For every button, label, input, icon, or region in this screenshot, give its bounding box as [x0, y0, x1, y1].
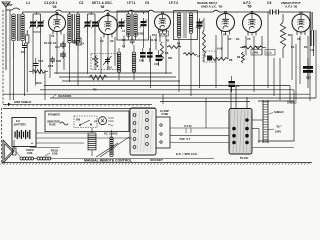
- svg-text:'36: '36: [100, 5, 105, 9]
- svg-text:A.F.2 '36: A.F.2 '36: [285, 5, 298, 9]
- svg-text:PLUG: PLUG: [240, 156, 249, 160]
- svg-text:COIL: COIL: [27, 152, 33, 155]
- label I.F.T.2: [169, 1, 178, 5]
- svg-text:K1: K1: [304, 45, 308, 49]
- battery 6V storage: [12, 118, 36, 147]
- capacitor C1B: [56, 52, 66, 64]
- resistor R4: [183, 53, 201, 58]
- svg-text:C18: C18: [48, 64, 54, 68]
- svg-text:R3A: R3A: [36, 81, 42, 85]
- switch SW: [74, 116, 97, 128]
- svg-text:C2: C2: [79, 1, 83, 5]
- label MANUAL REMOTE CONTROL: [84, 159, 132, 163]
- inductor L2 RF transformer: [68, 12, 80, 50]
- resistor R4b: [166, 40, 181, 61]
- resistor R10: [280, 14, 285, 58]
- label SOCKET: [150, 158, 163, 162]
- label SHIELD top: [287, 101, 297, 105]
- tube V2 DET.1-OSC: [99, 13, 118, 37]
- label R10: [288, 33, 293, 37]
- svg-text:X2: X2: [100, 39, 104, 43]
- svg-text:SOCKET: SOCKET: [150, 158, 163, 162]
- svg-text:C9: C9: [267, 1, 271, 5]
- network tone box: [203, 51, 216, 62]
- capacitor C15 resistor R3A: [29, 58, 48, 86]
- label L1: [26, 1, 30, 5]
- capacitor C18: [48, 57, 55, 69]
- label DET.2 AVC: [197, 1, 223, 9]
- svg-text:(8.1): (8.1): [267, 52, 272, 55]
- svg-text:R07: R07: [168, 57, 173, 60]
- shield box I.F.T.2: [174, 11, 198, 40]
- svg-text:MANUAL REMOTE CONTROL: MANUAL REMOTE CONTROL: [84, 159, 132, 163]
- svg-text:C1: C1: [44, 1, 48, 5]
- svg-text:C10: C10: [306, 76, 311, 80]
- svg-text:"B+": "B+": [276, 125, 283, 129]
- inductor RF choke: [104, 130, 118, 157]
- wire battery to power leads: [14, 133, 214, 159]
- wire antenna top lead: [6, 8, 20, 10]
- svg-text:K6: K6: [165, 51, 169, 55]
- svg-text:R8: R8: [229, 58, 233, 62]
- svg-text:180V: 180V: [275, 130, 281, 134]
- wire component drop lines: [10, 10, 308, 100]
- antenna ANT: [2, 2, 13, 70]
- label R8a: [217, 48, 223, 51]
- capacitor C3 osc padder: [118, 12, 131, 36]
- svg-text:FUSE: FUSE: [49, 124, 56, 127]
- svg-text:½OF ½-7: ½OF ½-7: [179, 137, 191, 141]
- svg-text:C: C: [205, 55, 207, 58]
- label V5 pins: [242, 37, 260, 49]
- wire V2 top: [107, 12, 109, 16]
- capacitor C11: [310, 12, 315, 56]
- svg-text:V4: V4: [223, 33, 227, 37]
- transformer T1: [88, 128, 96, 156]
- label C9: [267, 1, 271, 5]
- field coil: [37, 150, 58, 161]
- svg-text:K1: K1: [236, 37, 240, 41]
- capacitor C9 coupling: [268, 10, 281, 15]
- inductor IFT1 windings: [134, 12, 148, 36]
- svg-text:K1 FE C#: K1 FE C#: [44, 41, 57, 45]
- wire V4 top: [225, 11, 227, 13]
- inductor L5: [117, 38, 126, 80]
- wire plug to cable: [252, 120, 294, 148]
- label C16 box: [160, 31, 169, 36]
- wire V1 top: [56, 12, 58, 15]
- svg-text:FUSE: FUSE: [162, 113, 169, 116]
- svg-text:X 2 IG: X 2 IG: [184, 124, 192, 128]
- wire control diagonal: [96, 137, 129, 157]
- label V3 pins: [150, 33, 157, 42]
- svg-text:(C4B): (C4B): [137, 33, 144, 36]
- inductor IFT2 windings: [177, 13, 193, 38]
- label A.F.1 '56: [243, 1, 252, 9]
- label CHASSIS: [52, 94, 71, 98]
- svg-text:CHASSIS: CHASSIS: [58, 94, 71, 98]
- tube V1 R.F. '39: [49, 12, 66, 34]
- resistor R8: [210, 58, 233, 63]
- fuse vibrator: [47, 121, 68, 127]
- label E.P.: [176, 152, 198, 156]
- label C2: [79, 1, 83, 5]
- svg-text:L1: L1: [26, 1, 30, 5]
- svg-text:GNR SHIELD: GNR SHIELD: [14, 100, 31, 104]
- svg-text:'56: '56: [247, 5, 252, 9]
- svg-text:R10: R10: [288, 33, 293, 37]
- svg-text:(240): (240): [253, 52, 259, 55]
- svg-text:SW: SW: [76, 119, 81, 122]
- label SHIELD arrow: [269, 110, 284, 114]
- svg-text:V1: V1: [51, 34, 55, 38]
- svg-text:COIL: COIL: [52, 153, 58, 156]
- svg-text:BATTERY: BATTERY: [14, 123, 26, 127]
- box output shield: [258, 101, 294, 141]
- label V4 pins: [223, 33, 240, 42]
- tube V3 I.F.: [155, 12, 171, 33]
- label I.F.T.1: [127, 1, 149, 5]
- label V1 pins: [44, 34, 57, 45]
- svg-text:E.P. = SPK FLD.: E.P. = SPK FLD.: [176, 152, 198, 156]
- svg-text:R.F. CHOKE: R.F. CHOKE: [104, 133, 118, 136]
- resistor R6: [161, 42, 169, 60]
- svg-text:C11: C11: [310, 48, 315, 52]
- label DET.1 OSC: [92, 1, 113, 9]
- vibrator VT: [94, 117, 114, 126]
- svg-text:C4B: C4B: [139, 60, 144, 63]
- label 10 AMP FUSE: [160, 110, 169, 116]
- svg-text:K1: K1: [228, 37, 232, 41]
- capacitor C13: [73, 39, 85, 46]
- resistor R2 box: [77, 38, 82, 45]
- wire horizontal bus lines: [3, 73, 316, 102]
- svg-text:I.F.T.1: I.F.T.1: [127, 1, 136, 5]
- svg-text:C7: C7: [198, 26, 202, 30]
- resistor R9b: [237, 52, 245, 63]
- label A.F.2 '36: [281, 1, 301, 9]
- plug connector PLUG: [229, 109, 252, 161]
- resistor R9: [240, 46, 266, 49]
- label value 240: [251, 50, 262, 56]
- label C1: [44, 1, 48, 5]
- wire plug top lead: [231, 86, 247, 109]
- svg-text:C14: C14: [55, 46, 60, 49]
- label V6 pins: [291, 37, 308, 49]
- svg-text:'39: '39: [52, 5, 57, 9]
- resistor R1 box: [26, 30, 29, 48]
- network R5 C19: [91, 54, 118, 70]
- capacitor C4B padder: [139, 48, 153, 63]
- wire misc right: [296, 94, 310, 101]
- capacitor C10: [303, 58, 313, 80]
- left edge dashes: [1, 108, 3, 162]
- svg-text:SHIELD: SHIELD: [287, 101, 297, 105]
- svg-text:ANT: ANT: [7, 3, 13, 7]
- capacitor C8: [21, 43, 27, 54]
- label X2IG: [179, 124, 192, 141]
- svg-text:POWER: POWER: [48, 113, 60, 117]
- wire V6 top: [300, 11, 302, 14]
- capacitor C16: [154, 50, 162, 66]
- socket secondary: [156, 117, 170, 148]
- label B+ 180V: [268, 125, 283, 134]
- svg-text:I.F.T.2: I.F.T.2: [169, 1, 178, 5]
- shield box oscillator coil: [117, 11, 132, 40]
- svg-text:VT: VT: [94, 120, 98, 124]
- svg-text:6-V: 6-V: [16, 119, 20, 123]
- svg-text:C5: C5: [145, 1, 149, 5]
- svg-text:C16: C16: [161, 34, 166, 36]
- tube V6 A.F.2: [292, 12, 310, 35]
- wire socket to plug leads: [163, 94, 229, 142]
- label V2 pins: [100, 39, 114, 43]
- wire V3 top: [162, 11, 164, 14]
- label O.E.1 '39: [49, 1, 58, 9]
- tube V5 A.F.1: [243, 11, 262, 35]
- capacitor C14: [55, 42, 66, 50]
- svg-text:X3: X3: [110, 39, 114, 43]
- capacitor C7 trimmer: [196, 19, 204, 31]
- capacitor C1 tuning gang: [29, 12, 44, 32]
- resistor R7: [203, 18, 206, 62]
- capacitor C2 tuning gang: [84, 12, 99, 33]
- shielded cable ladder: [263, 100, 268, 143]
- tube V4 A.V.C.: [217, 11, 235, 34]
- capacitor C6: [229, 76, 240, 92]
- label C4B top: [137, 33, 144, 36]
- label value 8.1: [265, 50, 275, 56]
- wire V5 top: [251, 11, 253, 13]
- wire L1 bottom: [14, 46, 25, 58]
- chassis ground hatched bottom edge: [0, 163, 312, 165]
- socket connector: [130, 108, 156, 155]
- shield box I.F.T.1: [132, 11, 149, 40]
- svg-text:K1: K1: [291, 45, 295, 49]
- voice coil: [16, 149, 34, 160]
- speaker cone: [3, 140, 16, 163]
- wire right bus verticals: [290, 12, 316, 101]
- svg-text:C6: C6: [236, 84, 240, 88]
- inductor L6: [130, 38, 136, 81]
- power unit box POWER: [45, 111, 129, 132]
- label L3: [122, 29, 126, 33]
- svg-text:C16: C16: [154, 63, 159, 66]
- wire top B+ bus: [23, 10, 312, 12]
- resistor R3: [89, 75, 107, 91]
- svg-text:+: +: [31, 142, 33, 146]
- svg-text:6Y3: 6Y3: [152, 33, 157, 37]
- inductor L1 antenna transformer: [12, 12, 25, 46]
- svg-text:V5: V5: [247, 37, 251, 41]
- shield tick line: [3, 104, 152, 106]
- svg-text:SHIELD: SHIELD: [274, 110, 284, 114]
- svg-text:AND A.V.C. '85: AND A.V.C. '85: [201, 5, 223, 9]
- chassis top rail: [3, 107, 155, 109]
- shield dashed boundary GND SHIELD: [3, 10, 31, 106]
